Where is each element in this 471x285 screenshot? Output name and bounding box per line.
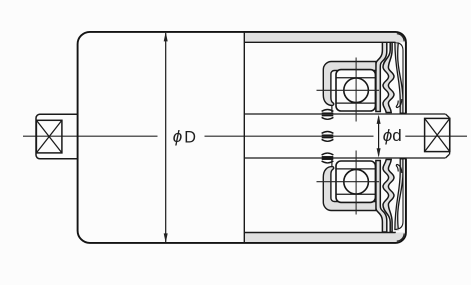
right shaft flats (square with X) [425, 118, 450, 151]
tube wall top [244, 32, 397, 42]
cap inner corner line top right [397, 34, 404, 42]
labyrinth ring (Z-profile, tube fixed) [376, 40, 387, 112]
left shaft stub [36, 114, 78, 159]
shell wall foot curl [396, 99, 401, 108]
race lines [336, 77, 375, 79]
bearing housing cup [323, 62, 376, 106]
centerline (shaft axis) [23, 135, 467, 137]
weld corner wedge bottom right [396, 233, 406, 243]
end cap bell with labyrinth wave [383, 40, 394, 113]
shaft bottom line [244, 157, 445, 159]
svg-text:ϕ: ϕ [383, 126, 392, 145]
svg-text:ϕ: ϕ [173, 127, 182, 146]
weld corner wedge top right [396, 32, 406, 42]
break mark on centerline [322, 132, 334, 142]
cap inner corner line bottom right [397, 234, 404, 242]
right shaft end [446, 114, 450, 158]
break mark on shaft top line [322, 110, 334, 120]
shaft top line [244, 113, 445, 115]
bearing outer box [336, 70, 375, 111]
tube wall bottom [244, 233, 397, 243]
dimension d [377, 115, 402, 158]
left shaft flats (square with X) [36, 120, 62, 153]
inner seal ring tail [331, 105, 333, 112]
roller shell outline (right edge broken where shaft passes) [78, 32, 406, 243]
end cap outer skirt [396, 42, 406, 113]
crosshair [317, 89, 380, 91]
svg-text:D: D [184, 129, 196, 147]
ball [344, 78, 369, 103]
bearing unit top [317, 40, 406, 122]
section boundary line [243, 32, 245, 243]
bearing unit bottom (mirror) [317, 151, 406, 233]
end cap shell wall [395, 43, 403, 114]
dimension D [164, 32, 196, 243]
svg-text:d: d [392, 126, 401, 145]
break mark on shaft bottom line [322, 153, 334, 163]
